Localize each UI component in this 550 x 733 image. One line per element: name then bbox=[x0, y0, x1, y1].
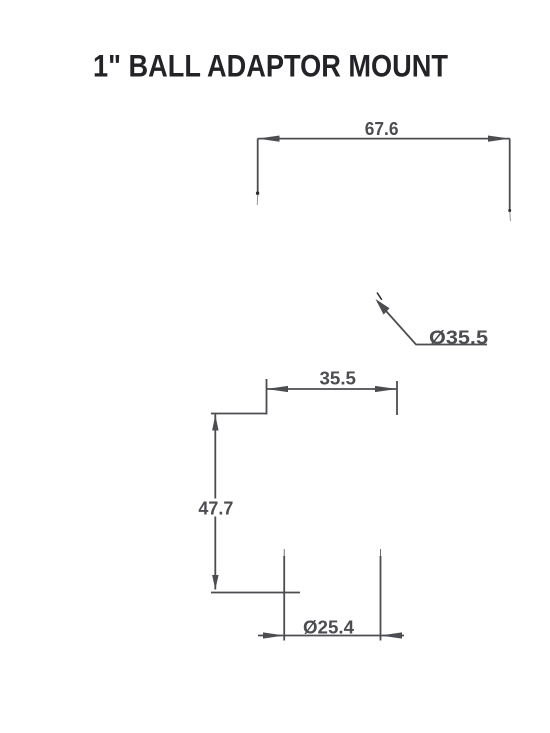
arrowhead 47.7 top (points up) bbox=[212, 415, 219, 431]
leader arrowhead diameter 35.5 (points up-left) bbox=[376, 299, 390, 315]
dimension 35.5: right tick bbox=[396, 381, 398, 415]
dimension 25.4: dim line bbox=[258, 635, 404, 637]
svg-text:Ø35.5: Ø35.5 bbox=[429, 328, 488, 349]
ink dot right extension end bbox=[508, 209, 511, 212]
arrowhead 67.6 right (points right) bbox=[488, 136, 510, 142]
arrowhead 47.7 bottom (points down) bbox=[212, 575, 219, 590]
arrowhead 35.5 left (points left) bbox=[267, 386, 289, 392]
dimension 35.5: dim line bbox=[267, 388, 398, 390]
svg-text:67.6: 67.6 bbox=[365, 119, 399, 139]
dimension 47.7: bottom extension / part bottom edge bbox=[211, 592, 300, 594]
leader line for diameter 35.5 bbox=[378, 302, 488, 345]
svg-text:Ø25.4: Ø25.4 bbox=[303, 618, 354, 638]
arrowhead 35.5 right (points right) bbox=[375, 386, 397, 392]
dimension 67.6: right extension taper bbox=[509, 211, 512, 222]
dimension 67.6: dim line bbox=[258, 138, 510, 140]
dimension 47.7: top extension line bbox=[211, 413, 267, 415]
svg-text:1" BALL ADAPTOR MOUNT: 1" BALL ADAPTOR MOUNT bbox=[93, 48, 448, 84]
dimension 47.7: dim line upper segment bbox=[214, 414, 216, 499]
dimension 67.6: left extension line bbox=[257, 139, 259, 193]
arrowhead 25.4 right outside (points left) bbox=[381, 632, 403, 638]
ink dot left extension end bbox=[256, 192, 259, 195]
dimension 25.4: left extension line bbox=[283, 556, 285, 641]
dimension 35.5: left tick bbox=[266, 379, 268, 415]
dimension 67.6: right extension line bbox=[509, 139, 511, 211]
svg-text:35.5: 35.5 bbox=[320, 369, 357, 389]
leader arrow dark tip stroke bbox=[377, 293, 382, 300]
dimension 25.4: right extension taper bbox=[380, 549, 382, 556]
dimension 25.4: left extension taper bbox=[283, 549, 285, 556]
arrowhead 25.4 left outside (points right) bbox=[263, 632, 284, 638]
dimension 67.6: left extension taper bbox=[256, 193, 258, 205]
dimension 47.7: dim line lower segment bbox=[214, 517, 216, 590]
arrowhead 67.6 left (points left) bbox=[258, 136, 280, 142]
dimension 25.4: right extension line bbox=[380, 556, 382, 641]
svg-text:47.7: 47.7 bbox=[198, 499, 233, 519]
